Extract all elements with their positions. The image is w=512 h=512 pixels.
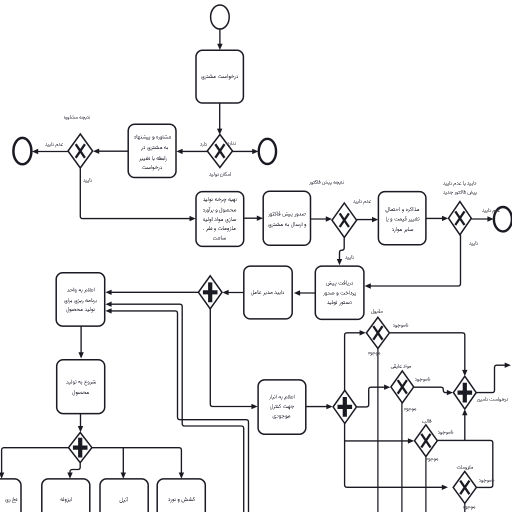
wire: gateway maqbul "namowjud" to parallel gateway P3 bbox=[390, 333, 465, 373]
text task production-cycle L2 bbox=[208, 211, 235, 212]
label: namowjud (maqbul) bbox=[396, 326, 403, 327]
gateway: maqbul (X) bbox=[366, 317, 389, 348]
wire: task start-production to parallel gateway P2 bbox=[80, 414, 82, 429]
label: adam tayid (D2) bbox=[494, 211, 499, 212]
wire: gateway D2 "tayid" down-left to task receive-prepayment bbox=[368, 235, 460, 286]
wire: task notify-planning to task start-production bbox=[80, 326, 82, 355]
label: mavad ayeghi bbox=[393, 367, 411, 368]
end event E3 bbox=[494, 207, 512, 231]
gateway: insulation material (X) bbox=[391, 371, 414, 403]
task: notify warehouse stock control bbox=[258, 380, 306, 434]
label: natije moshavere bbox=[68, 118, 85, 119]
gateway: supplies (X) bbox=[453, 471, 476, 503]
task: consult customer about change bbox=[128, 124, 176, 177]
text task spinning bbox=[7, 500, 17, 501]
text task notify-warehouse L2 bbox=[274, 406, 294, 409]
label: nadarad bbox=[227, 142, 236, 146]
text task production-cycle L5 bbox=[224, 238, 225, 240]
wire: gateway mold "mowjud" down bbox=[425, 457, 427, 512]
wire: task negotiate to gateway new-proforma-approve bbox=[426, 217, 445, 219]
wire: parallel gateway P4 right to gateway insulation-material bbox=[357, 387, 387, 407]
text task production-cycle L3 bbox=[204, 220, 236, 221]
gateway G1: production possible (X) bbox=[207, 135, 232, 168]
text task anneal bbox=[120, 501, 125, 503]
text task issue-proforma L1 bbox=[271, 215, 303, 216]
label: mowjud (maqbul) bbox=[371, 354, 379, 355]
text task rolling bbox=[169, 499, 194, 501]
wire: parallel gateway P2 right to tasks anneal and rolling bbox=[92, 448, 181, 475]
label: mowjud (insulation) bbox=[407, 410, 415, 411]
task: spinning (cut at edge) bbox=[0, 479, 21, 512]
task: notify planning unit bbox=[56, 273, 104, 326]
wire: gateway insulation-material "namowjud" to parallel gateway P3 bbox=[414, 387, 450, 392]
label: adam tayid (G2) bbox=[57, 145, 62, 146]
task: insulate bbox=[42, 479, 90, 512]
task: anneal bbox=[100, 479, 148, 512]
label: mowjud (supplies) bbox=[466, 508, 474, 509]
text task negotiate L1 bbox=[390, 209, 419, 211]
parallel gateway P4 (+) bbox=[333, 390, 356, 423]
text task notify-warehouse L1 bbox=[273, 397, 286, 399]
task: customer request bbox=[196, 50, 243, 103]
wire: task consult to gateway consult-result bbox=[97, 150, 129, 152]
label: tayid ya adam tayid L1 bbox=[455, 184, 460, 185]
label: emkan tolid bbox=[216, 175, 217, 177]
wire: parallel gateway P4 down to gateways mold and supplies bbox=[345, 423, 445, 487]
text task customer-request bbox=[203, 77, 238, 78]
text task notify-planning L2 bbox=[66, 301, 93, 302]
wire: customer-request to gateway production-possible bbox=[219, 103, 221, 131]
wire: gateway maqbul "mowjud" down bbox=[377, 349, 379, 512]
text task negotiate L2 bbox=[391, 220, 404, 221]
wire: task receive-prepayment to task ceo-approve bbox=[298, 292, 316, 294]
wire: parallel gateway P1 to task notify-planning bbox=[109, 291, 198, 293]
text task consult L4 bbox=[145, 168, 162, 169]
task: rolling bbox=[157, 479, 205, 512]
label: namowjud (supplies) bbox=[482, 481, 489, 482]
wire: task ceo-approve to parallel gateway P1 bbox=[226, 292, 244, 294]
wire: gateway G2 "tayid" down-right to task production-cycle bbox=[80, 168, 192, 219]
wire: return line lower into task notify-planning bbox=[109, 304, 244, 512]
label: namowjud (insulation) bbox=[418, 380, 425, 381]
end event E2 bbox=[13, 138, 31, 164]
label: tayid (G2) bbox=[83, 179, 92, 183]
wire: gateway G1 "nadarad" to end event E1 bbox=[233, 150, 255, 152]
wire: task notify-warehouse to parallel gateway P4 bbox=[306, 406, 329, 408]
text task insulate bbox=[62, 500, 69, 501]
text task receive-prepayment L1 bbox=[328, 284, 345, 286]
text task receive-prepayment L2 bbox=[326, 293, 354, 295]
text task receive-prepayment L3 bbox=[328, 303, 349, 304]
task: start production bbox=[57, 360, 105, 414]
wire: start to task customer-request bbox=[219, 29, 221, 47]
wire: branch down to task anneal bbox=[122, 448, 124, 475]
text task consult L3 bbox=[140, 159, 164, 160]
wire: merged namowjud up into parallel gateway P3 bbox=[464, 413, 466, 441]
text task start-production L1 bbox=[74, 382, 95, 384]
label: tayid (D2) bbox=[469, 242, 478, 246]
parallel gateway P2 (+) bbox=[69, 433, 92, 463]
wire: branch right to gateway mold bbox=[345, 440, 411, 442]
label: tayid (D1) bbox=[345, 256, 354, 260]
wire: parallel gateway P1 down-right to task notify-warehouse bbox=[210, 309, 254, 407]
wire: task issue-proforma to gateway proforma-result bbox=[311, 218, 329, 220]
task: issue proforma invoice bbox=[263, 191, 310, 245]
label: namowjud (mold) bbox=[441, 433, 448, 434]
label: natije pish faktor bbox=[312, 182, 339, 184]
wire: parallel gateway P3 out to supply-request bbox=[476, 365, 507, 392]
wire: parallel gateway P2 down to task insulate bbox=[70, 463, 80, 475]
text task notify-planning L3 bbox=[70, 310, 94, 311]
wire: gateway G1 "darad" to task consult bbox=[180, 150, 207, 152]
gateway: mold (X) bbox=[415, 425, 438, 457]
gateway D2: new proforma approval (X) bbox=[449, 202, 472, 235]
parallel gateway P3: supply request (+) bbox=[453, 376, 476, 409]
task: prepare production cycle bbox=[196, 192, 244, 247]
end event E1 bbox=[259, 139, 276, 164]
task: receive prepayment, issue production order bbox=[315, 266, 364, 319]
text task negotiate L3 bbox=[393, 230, 413, 231]
label: darad bbox=[200, 143, 207, 147]
parallel gateway P1 (+) bbox=[198, 276, 222, 309]
wire: gateway D1 "tayid" down to task receive-prepayment bbox=[340, 237, 345, 261]
text task issue-proforma L2 bbox=[270, 225, 306, 226]
wire: task production-cycle to task issue-proforma bbox=[244, 217, 260, 219]
wire: gateway D1 "adam tayid" to task negotiate bbox=[357, 219, 375, 221]
wire: gateway insulation-material "mowjud" down bbox=[401, 403, 403, 512]
label: mowjud (mold) bbox=[429, 460, 437, 461]
text task production-cycle L1 bbox=[204, 200, 235, 202]
label: qaleb bbox=[430, 420, 431, 422]
text task consult L1 bbox=[138, 138, 162, 139]
text task production-cycle L4 bbox=[207, 229, 235, 230]
text task notify-planning L1 bbox=[72, 290, 86, 292]
label: pish faktor jadid L2 bbox=[452, 192, 471, 194]
label: adam tayid (D1) bbox=[365, 202, 370, 203]
wire: gateway supplies "mowjud" down bbox=[464, 504, 466, 512]
gateway G2: consult result (X) bbox=[68, 134, 93, 168]
wire: gateway mold "namowjud" merge line bbox=[437, 440, 492, 487]
wire: parallel gateway P4 up to gateway maqbul bbox=[345, 333, 363, 391]
wire: gateway G2 "adam tayid" to end event E2 bbox=[36, 151, 69, 153]
task: negotiate price change bbox=[378, 192, 426, 245]
label: malzumat bbox=[466, 468, 473, 469]
label: maqbul bbox=[375, 312, 380, 314]
text task consult L2 bbox=[144, 148, 168, 149]
text task start-production L2 bbox=[76, 393, 89, 394]
wire: return line upper into task notify-planning bbox=[109, 311, 249, 512]
wire: gateway D2 "adam tayid" to end event E3 bbox=[471, 218, 490, 220]
wire: parallel gateway P2 left to task spinning bbox=[2, 448, 69, 475]
start event bbox=[211, 5, 230, 29]
label: darkhast tamin bbox=[500, 400, 504, 401]
gateway D1: proforma result (X) bbox=[332, 203, 357, 237]
task: CEO approval bbox=[244, 266, 292, 319]
text task notify-warehouse L3 bbox=[275, 417, 289, 418]
text task ceo-approve bbox=[253, 293, 284, 294]
